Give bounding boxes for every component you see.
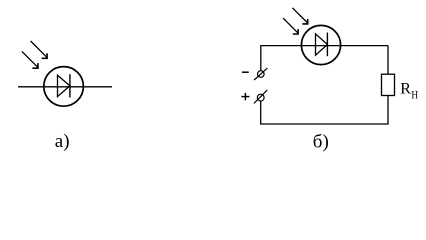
svg-text:Н: Н: [411, 89, 418, 102]
light arrow 2 (lower): [22, 51, 38, 68]
photodiode VD circle: [301, 25, 340, 64]
minus sign: [242, 71, 249, 73]
light arrow 1 (upper): [292, 8, 307, 24]
diode triangle (anode): [316, 34, 328, 55]
left upper wire: [260, 46, 262, 71]
right lower wire: [387, 95, 389, 124]
plus sign: [241, 93, 249, 100]
left lower wire: [260, 101, 262, 124]
wire: [18, 86, 112, 88]
diode cathode bar: [69, 74, 71, 97]
photodiode VD circle: [44, 67, 84, 107]
positive output terminal: [254, 90, 267, 103]
light arrow 2 (lower): [283, 18, 298, 34]
diode cathode bar: [326, 33, 328, 57]
diode triangle (anode): [58, 75, 70, 96]
top wire: [260, 45, 388, 47]
svg-text:а): а): [55, 131, 70, 152]
negative output terminal: [254, 68, 267, 80]
svg-text:R: R: [400, 81, 411, 98]
right upper wire: [387, 46, 389, 75]
svg-text:б): б): [313, 132, 329, 153]
light arrow 1 (upper): [31, 41, 47, 58]
resistor Rn: [382, 74, 395, 95]
bottom wire: [260, 123, 389, 125]
